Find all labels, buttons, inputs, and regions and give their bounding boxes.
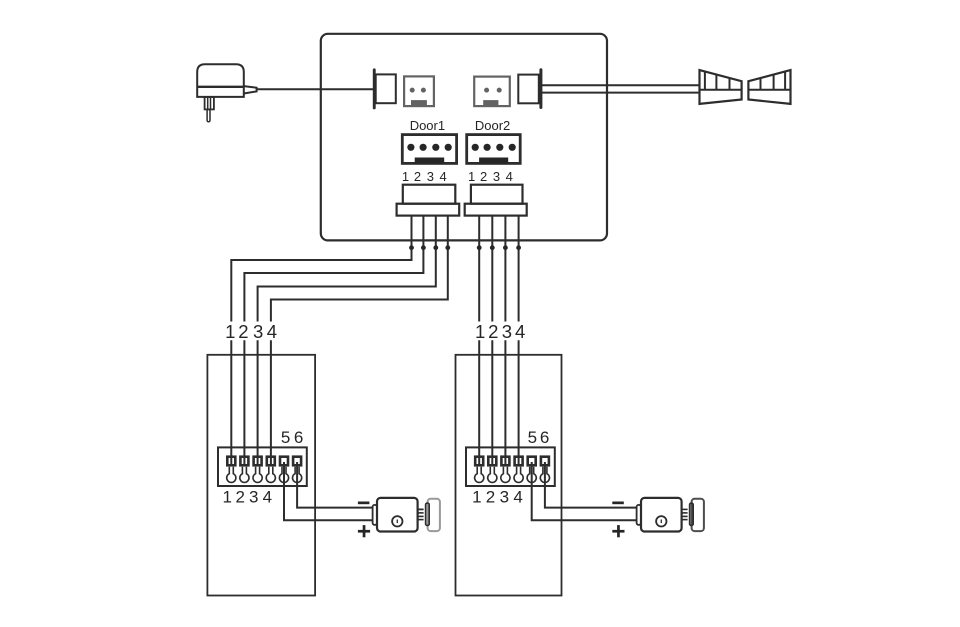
plug Door1 <box>397 185 460 216</box>
terminal block 1 <box>218 447 307 486</box>
wire Door1-2 <box>244 216 423 464</box>
minus sign lock 2 <box>612 502 624 505</box>
svg-text:4: 4 <box>267 321 277 342</box>
svg-text:2: 2 <box>235 487 244 506</box>
svg-text:1: 1 <box>468 169 475 184</box>
power adapter <box>197 64 256 122</box>
junction dots Door1 <box>409 245 450 250</box>
terminal labels 5 6 block 1 <box>281 428 303 447</box>
plug Door2 <box>465 185 527 216</box>
svg-text:2: 2 <box>486 487 495 506</box>
wire adapter to monitor <box>257 88 374 90</box>
svg-text:5: 5 <box>281 428 290 447</box>
connector Door1 <box>402 135 456 164</box>
svg-text:3: 3 <box>493 169 500 184</box>
wire Door2-2 <box>491 216 493 464</box>
lock 2 striker plate <box>690 499 704 531</box>
svg-text:3: 3 <box>502 321 512 342</box>
terminal labels 1 2 3 4 block 1 <box>222 487 272 506</box>
wire Door1-4 <box>271 216 448 464</box>
camera icon 2 <box>474 77 510 107</box>
plus sign lock 2 <box>612 525 624 537</box>
svg-text:2: 2 <box>488 321 498 342</box>
svg-text:1: 1 <box>222 487 231 506</box>
svg-text:6: 6 <box>294 428 303 447</box>
svg-text:3: 3 <box>427 169 434 184</box>
wire Door2-3 <box>504 216 506 464</box>
plus sign lock 1 <box>358 525 370 537</box>
svg-text:2: 2 <box>480 169 487 184</box>
horn speaker right half <box>748 70 790 104</box>
indoor monitor 2 box <box>456 355 562 596</box>
wire terminal 5 to lock 1 <box>284 462 373 520</box>
terminal labels 5 6 block 2 <box>528 428 550 447</box>
svg-text:1: 1 <box>475 321 485 342</box>
pin labels Door1 <box>402 169 447 184</box>
minus sign lock 1 <box>358 502 370 505</box>
terminal block 2 <box>466 447 555 486</box>
svg-text:4: 4 <box>263 487 272 506</box>
junction dots Door2 <box>477 245 521 250</box>
lock 1 striker plate <box>426 499 440 531</box>
wire Door1-3 <box>258 216 436 464</box>
svg-text:1: 1 <box>472 487 481 506</box>
svg-text:2: 2 <box>414 169 421 184</box>
camera icon 1 <box>404 76 434 106</box>
wire terminal 6 to lock 2 <box>545 462 637 508</box>
pin labels Door2 <box>468 169 513 184</box>
svg-text:1: 1 <box>225 321 235 342</box>
svg-text:4: 4 <box>513 487 522 506</box>
horn speaker left half <box>700 70 742 104</box>
svg-text:1: 1 <box>402 169 409 184</box>
svg-text:3: 3 <box>253 321 263 342</box>
wire Door2-4 <box>518 216 520 464</box>
left speaker plate <box>373 68 396 109</box>
wire terminal 6 to lock 1 <box>297 462 373 508</box>
svg-text:Door2: Door2 <box>475 118 510 133</box>
wire Door2-1 <box>478 216 480 464</box>
electric lock 2 <box>637 498 688 532</box>
svg-text:5: 5 <box>528 428 537 447</box>
wire Door1-1 <box>231 216 411 464</box>
terminal labels 1 2 3 4 block 2 <box>472 487 523 506</box>
svg-text:4: 4 <box>515 321 525 342</box>
right speaker plate <box>518 68 542 109</box>
svg-text:4: 4 <box>439 169 446 184</box>
wire to horn speaker (upper) <box>542 84 700 86</box>
wire to horn speaker (lower) <box>542 92 700 94</box>
electric lock 1 <box>373 498 424 532</box>
wire terminal 5 to lock 2 <box>532 462 637 520</box>
svg-text:4: 4 <box>506 169 513 184</box>
svg-text:6: 6 <box>540 428 549 447</box>
indoor monitor 1 box <box>207 355 315 596</box>
svg-text:Door1: Door1 <box>410 118 445 133</box>
monitor unit box <box>321 34 607 241</box>
svg-text:2: 2 <box>238 321 248 342</box>
wire labels right 1 2 3 4 <box>475 321 525 342</box>
svg-text:3: 3 <box>500 487 509 506</box>
wire labels left 1 2 3 4 <box>225 321 277 342</box>
connector Door2 <box>467 135 521 164</box>
svg-text:3: 3 <box>249 487 258 506</box>
